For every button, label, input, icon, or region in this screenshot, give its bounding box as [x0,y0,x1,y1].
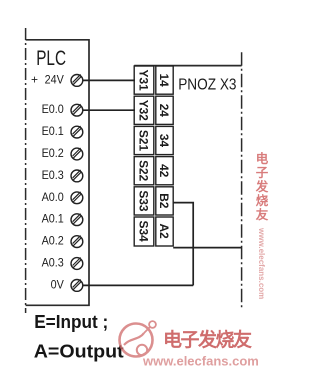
terminal E0.3 [42,169,83,182]
svg-text:42: 42 [157,164,171,178]
terminal Y31 (pin) [134,66,154,94]
svg-text:www.elecfans.com: www.elecfans.com [142,354,259,369]
terminal 14 (pin) [156,66,173,94]
svg-text:PLC: PLC [36,46,66,70]
svg-text:友: 友 [255,207,269,222]
svg-text:E=Input ;: E=Input ; [34,311,108,332]
terminal S34 (pin) [134,217,154,246]
svg-text:14: 14 [157,73,171,87]
terminal A2 (pin) [156,217,173,246]
terminal 24 (pin) [156,96,173,124]
svg-text:S34: S34 [137,221,151,243]
terminal 42 (pin) [156,157,173,185]
svg-text:34: 34 [157,134,171,148]
terminal A0.1 [42,213,83,226]
terminal A0.0 [42,191,83,204]
terminal 34 (pin) [156,126,173,154]
terminal +24V [31,73,83,87]
svg-text:B2: B2 [157,193,171,209]
terminal S22 (pin) [134,157,154,185]
terminal S33 (pin) [134,187,154,215]
svg-text:A=Output: A=Output [34,342,125,362]
terminal A0.2 [42,235,83,248]
PNOZ X3 boundary dash-dot line (right cut-off border) [241,52,243,308]
watermark vertical 电子发烧友 (right edge) [255,151,269,222]
PLC box outline [26,40,89,306]
wire B2 to 0V node [173,203,193,286]
svg-text:www.elecfans.com: www.elecfans.com [257,227,266,299]
svg-text:24V: 24V [45,74,65,87]
svg-text:A2: A2 [157,223,171,239]
legend E=Input [34,311,108,332]
watermark logo (elecfans) [120,321,156,356]
terminal E0.0 [42,104,83,117]
terminal B2 (pin) [156,187,173,215]
svg-text:S33: S33 [137,190,151,212]
PLC boundary dash-dot line (left cut-off border) [25,28,27,313]
terminal Y32 (pin) [134,96,154,124]
svg-text:S22: S22 [137,160,151,182]
terminal E0.2 [42,148,83,161]
svg-text:S21: S21 [137,130,151,152]
svg-text:A0.3: A0.3 [42,257,64,270]
svg-text:烧: 烧 [256,193,269,208]
wire +24V to Y31 [83,79,135,81]
wire A2 to right boundary [173,247,241,249]
svg-text:A0.2: A0.2 [42,235,64,248]
svg-text:24: 24 [157,104,171,118]
svg-text:Y31: Y31 [137,70,151,92]
svg-text:A0.1: A0.1 [42,213,64,226]
svg-text:电子发烧友: 电子发烧友 [163,328,252,351]
PLC label [36,46,66,70]
terminal 0V [51,279,83,292]
watermark vertical www.elecfans.com (right edge) [257,227,266,299]
wire E0.0 to Y32 [83,109,135,111]
terminal E0.1 [42,126,83,139]
svg-text:发: 发 [255,179,269,194]
svg-text:E0.2: E0.2 [42,148,64,161]
PNOZ X3 top edge [134,65,241,67]
wire 0V to node under PNOZ [83,284,193,286]
terminal S21 (pin) [134,126,154,154]
svg-text:Y32: Y32 [137,100,151,122]
svg-text:子: 子 [256,166,269,180]
svg-text:PNOZ X3: PNOZ X3 [178,77,236,94]
svg-text:电: 电 [256,151,269,166]
svg-text:E0.0: E0.0 [42,104,64,117]
svg-text:0V: 0V [51,279,65,292]
legend A=Output [34,342,125,362]
PNOZ X3 label [178,77,236,94]
svg-text:E0.1: E0.1 [42,126,64,139]
terminal A0.3 [42,257,83,270]
svg-text:E0.3: E0.3 [42,169,64,182]
svg-text:+: + [31,73,38,87]
svg-text:A0.0: A0.0 [42,191,64,204]
